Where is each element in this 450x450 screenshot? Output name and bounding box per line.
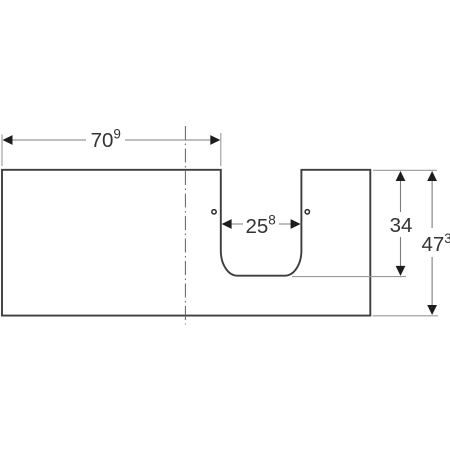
white gap for 70.9 label [86, 128, 125, 150]
extension line top-right (for 34 and 47.3) [373, 169, 437, 171]
arrowhead bottom of 47.3 [427, 305, 437, 315]
extension line bottom-right (for 47.3) [373, 315, 439, 317]
arrowhead bottom of 34 [396, 266, 406, 276]
svg-text:34: 34 [390, 214, 413, 237]
arrowhead right of 25.8 [291, 219, 301, 229]
countertop outline with U-cutout [2, 170, 370, 316]
arrowhead right of 70.9 [210, 135, 220, 145]
svg-text:3: 3 [444, 231, 450, 246]
extension line at cutout bottom (for 34) [292, 276, 406, 278]
extension line right (for 70.9) [220, 133, 222, 166]
white gap for 25.8 label [243, 212, 279, 236]
white gap for 47.3 label [420, 228, 450, 257]
white gap for 34 label [388, 212, 413, 237]
svg-text:25: 25 [246, 215, 269, 238]
arrowhead top of 34 [396, 171, 406, 181]
mounting hole left [212, 210, 216, 214]
arrowhead top of 47.3 [427, 171, 437, 181]
arrowhead left of 70.9 [3, 135, 13, 145]
centerline (dash-dot) [184, 126, 186, 325]
dimension line 70.9 [11, 139, 211, 141]
svg-text:8: 8 [268, 213, 276, 228]
svg-text:70: 70 [91, 129, 114, 152]
mounting hole right [305, 210, 309, 214]
svg-text:9: 9 [113, 127, 121, 142]
dimension line 25.8 [230, 223, 292, 225]
extension line left (for 70.9) [1, 135, 3, 167]
dimension line 34 [400, 179, 402, 267]
svg-text:47: 47 [422, 233, 445, 256]
dimension line 47.3 [431, 179, 433, 306]
arrowhead left of 25.8 [222, 219, 232, 229]
